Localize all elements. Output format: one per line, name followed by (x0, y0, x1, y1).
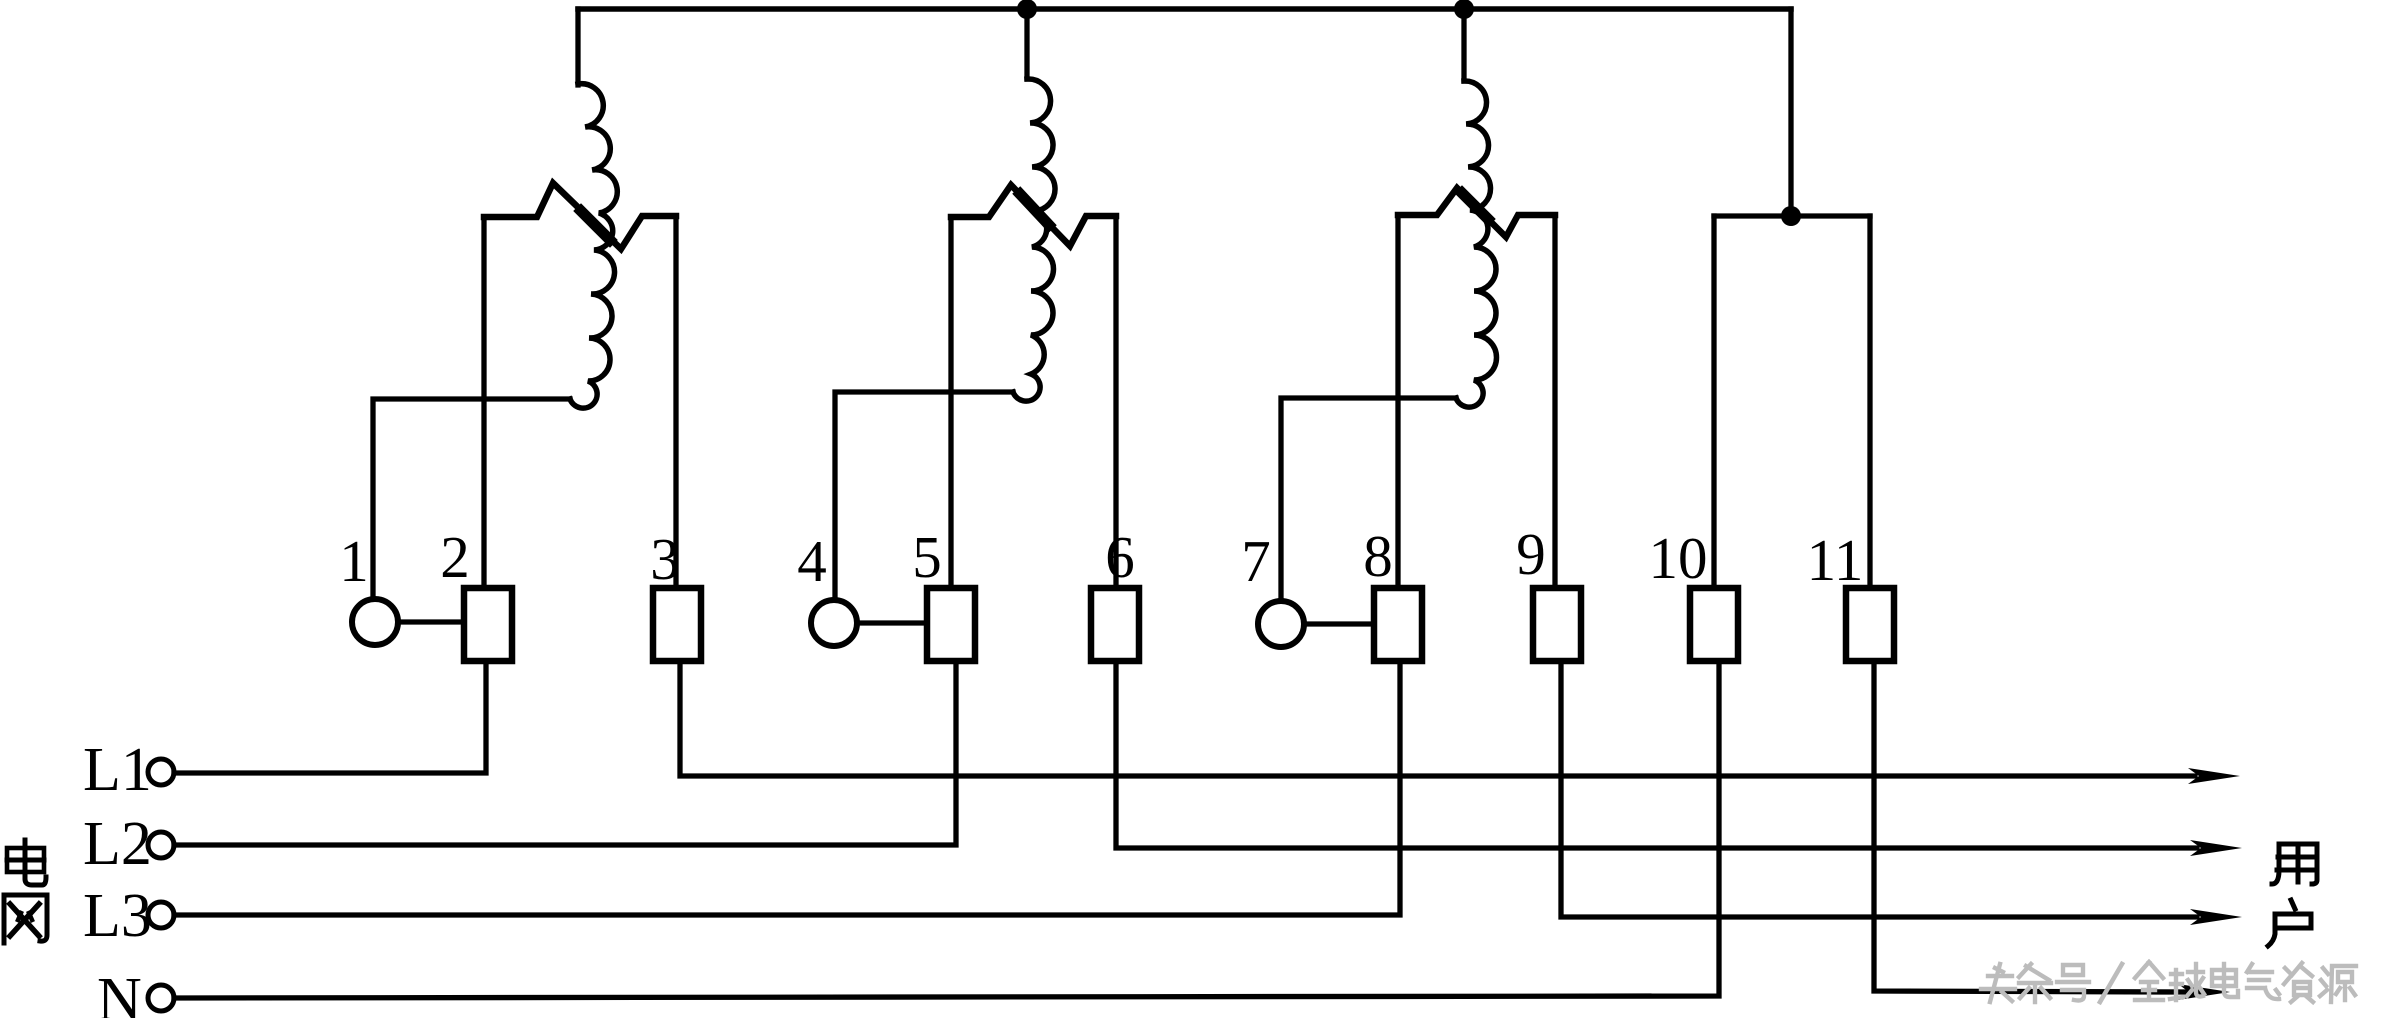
watermark glyph tou (1981, 964, 2015, 1002)
node N input circle (148, 985, 174, 1011)
svg-text:L2: L2 (83, 810, 152, 878)
svg-text:5: 5 (912, 524, 942, 590)
label yong (user) character (2272, 844, 2317, 884)
wire bracket1 left vertical (481, 217, 486, 588)
svg-text:3: 3 (650, 526, 680, 592)
current coil zigzag Q2 (951, 185, 1116, 246)
voltage coil W1 (570, 84, 617, 408)
wire L3 in to terminal 8 (174, 661, 1400, 915)
node L3 input circle (148, 902, 174, 928)
svg-text:L1: L1 (83, 736, 152, 804)
terminal square 5 (927, 588, 975, 661)
svg-text:1: 1 (339, 528, 369, 594)
node L2 input circle (148, 832, 174, 858)
wire bracket2 left vertical (948, 217, 953, 588)
wire rail drop to coil W3 (1461, 9, 1466, 81)
terminal square 2 (464, 588, 512, 661)
wire L1 in to terminal 2 (174, 661, 486, 773)
svg-text:N: N (97, 966, 142, 1018)
wire bracket2 right vertical (1113, 216, 1118, 588)
terminal square 9 (1533, 588, 1581, 661)
watermark glyph qi (2247, 964, 2279, 999)
wire coil W2 to terminal 4 (835, 392, 1013, 600)
svg-text:6: 6 (1105, 524, 1135, 590)
node junction dot C (1781, 206, 1801, 226)
wire L2 in to terminal 5 (174, 661, 956, 845)
watermark glyph quan (2135, 962, 2163, 1000)
watermark glyph hao (2057, 965, 2089, 1001)
node junction dot A (1017, 0, 1037, 19)
wire bracket3 left vertical (1395, 215, 1400, 588)
current coil crossing blob Q3 (1462, 193, 1488, 219)
terminal square 8 (1374, 588, 1422, 661)
watermark glyph zi (2284, 963, 2313, 1002)
wire rail drop to coil W1 (575, 9, 580, 85)
wire bracket4 top (1714, 213, 1870, 218)
current coil zigzag Q3 (1398, 188, 1555, 237)
wire L1 out from terminal 3 (680, 661, 2195, 776)
svg-text:9: 9 (1516, 521, 1546, 587)
arrow N (2178, 984, 2230, 1000)
wire L3 out from terminal 9 (1561, 661, 2197, 917)
wire link 1-2 (398, 619, 464, 624)
watermark glyph dian2 (2212, 964, 2238, 997)
voltage coil W2 (1013, 79, 1055, 401)
wire top voltage rail (578, 6, 1791, 12)
svg-text:8: 8 (1363, 523, 1393, 589)
terminal circle 1 (352, 599, 398, 645)
wire bracket1 right vertical (673, 216, 678, 588)
wire coil W3 to terminal 7 (1281, 398, 1456, 601)
wire bracket4 left vertical (1711, 216, 1716, 588)
arrow L1 (2188, 768, 2240, 784)
watermark glyph yuan (2320, 966, 2356, 1002)
current coil zigzag Q1 (484, 183, 676, 249)
svg-text:4: 4 (797, 528, 827, 594)
terminal circle 7 (1258, 601, 1304, 647)
terminal square 10 (1690, 588, 1738, 661)
current coil crossing blob Q2 (1020, 194, 1049, 225)
svg-text:7: 7 (1241, 528, 1271, 594)
arrow L2 (2190, 840, 2242, 856)
wire N out from terminal 11 (1874, 661, 2186, 992)
wire bracket3 right vertical (1552, 215, 1557, 588)
wire link 4-5 (857, 620, 927, 625)
current coil crossing blob Q1 (581, 211, 610, 240)
label dian (grid) character (7, 840, 46, 885)
svg-text:10: 10 (1649, 525, 1708, 591)
wire L2 out from terminal 6 (1116, 661, 2197, 848)
wire rail drop to coil W2 (1024, 9, 1029, 79)
svg-text:11: 11 (1807, 527, 1864, 593)
watermark glyph qiu (2170, 964, 2204, 1000)
wire coil W1 to terminal 1 (373, 399, 570, 599)
wire rail drop to bracket 4 (1788, 9, 1793, 216)
arrow L3 (2190, 909, 2242, 925)
terminal circle 4 (811, 600, 857, 646)
wire N in to terminal 10 (174, 661, 1719, 998)
terminal square 3 (653, 588, 701, 661)
voltage coil W3 (1456, 81, 1497, 407)
watermark toutiao global electric resources (1981, 962, 2356, 1002)
svg-text:2: 2 (440, 524, 470, 590)
watermark glyph tiao (2019, 964, 2051, 1002)
terminal square 11 (1846, 588, 1894, 661)
svg-text:L3: L3 (83, 882, 152, 950)
wire link 7-8 (1304, 621, 1374, 626)
watermark slash (2100, 964, 2122, 1002)
terminal square 6 (1091, 588, 1139, 661)
label wang (grid) character (4, 895, 47, 943)
label hu (user) character (2268, 900, 2311, 946)
node junction dot B (1454, 0, 1474, 19)
wire bracket4 right vertical (1867, 216, 1872, 588)
node L1 input circle (148, 759, 174, 785)
